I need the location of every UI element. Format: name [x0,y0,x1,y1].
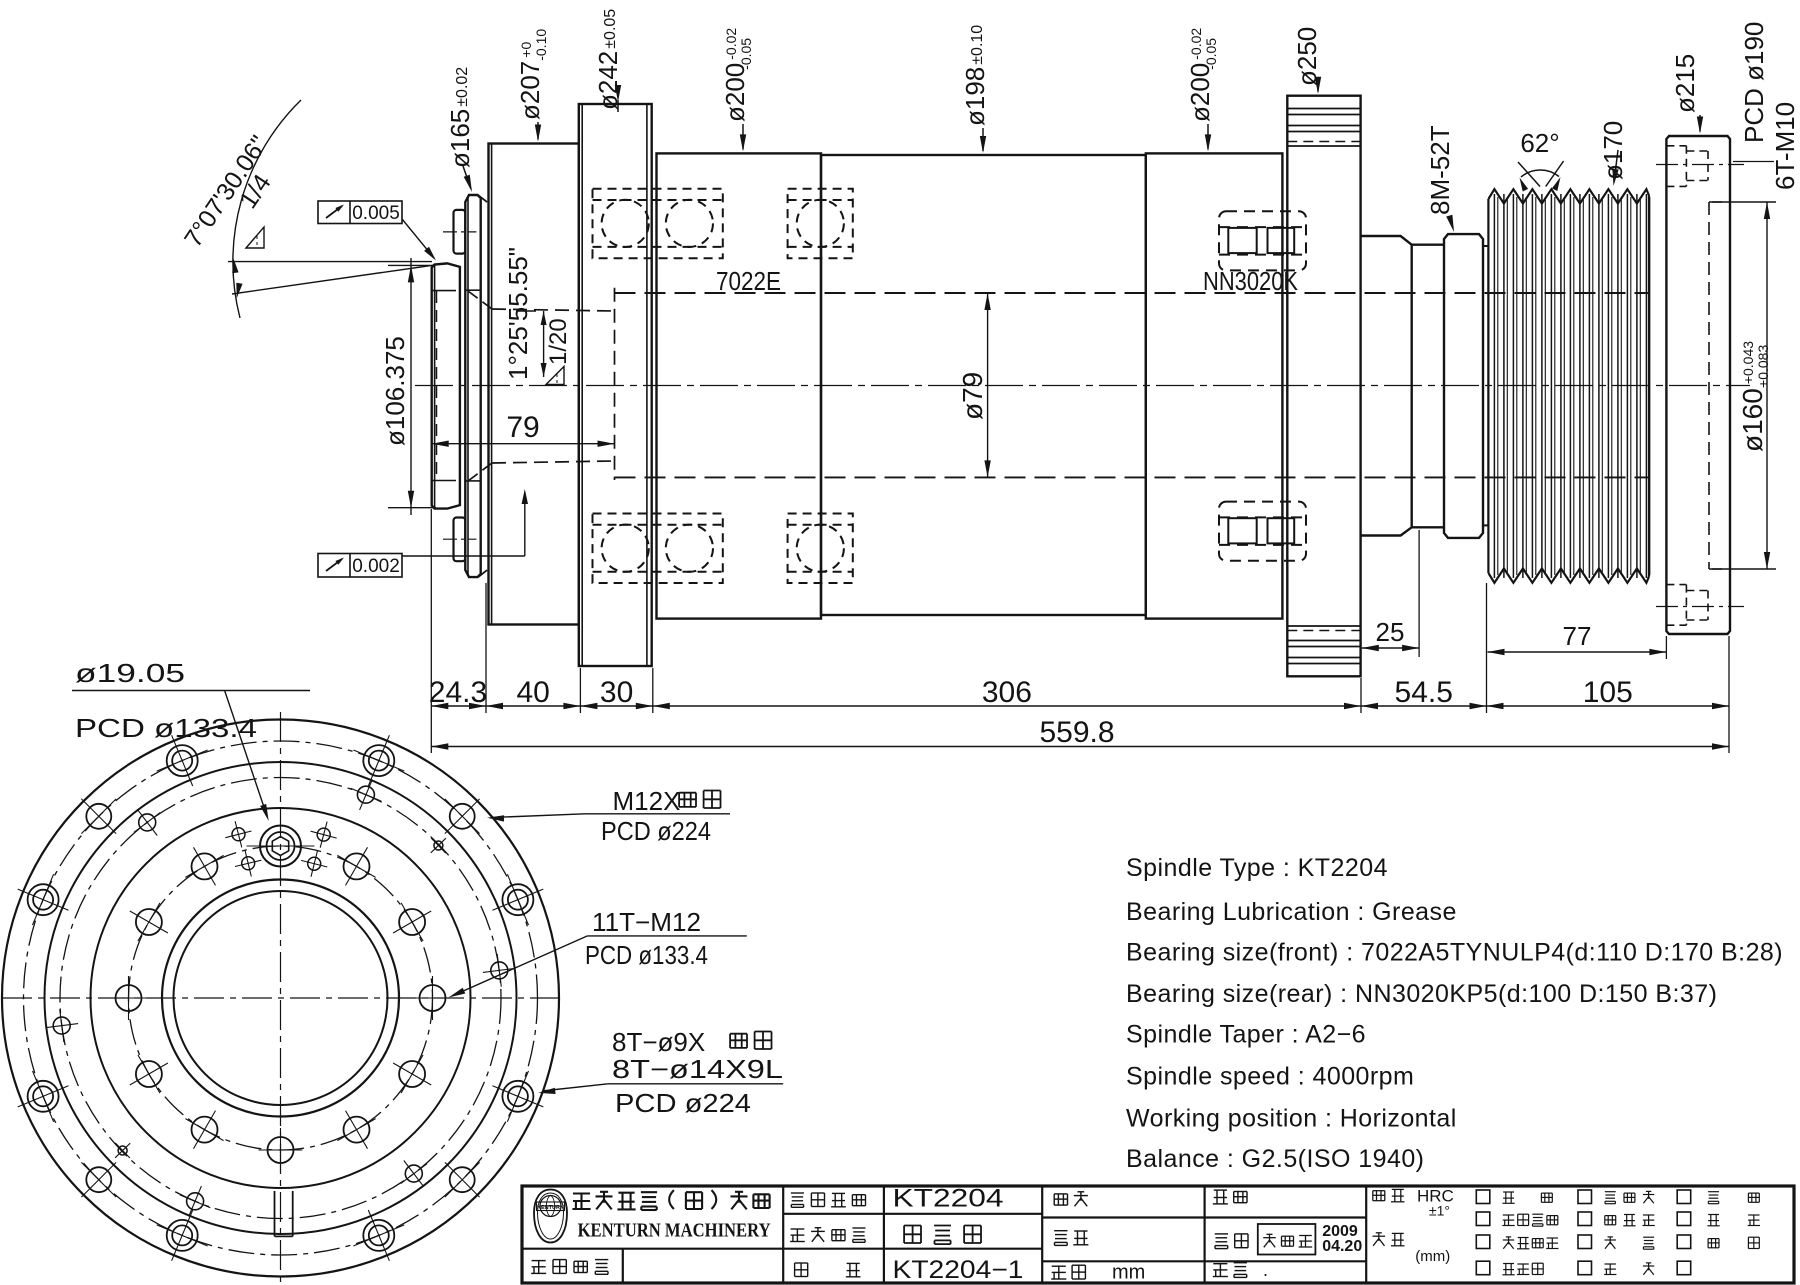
svg-text:KENTURN: KENTURN [537,1205,564,1211]
svg-text:ø160+0.043+0.083: ø160+0.043+0.083 [1737,341,1771,452]
node stepped shaft after rear flange [1361,236,1444,536]
wire dimension extension lines bottom [431,509,1729,753]
label D215 with arrow [1670,54,1703,134]
svg-text:PCD ø190: PCD ø190 [1739,22,1769,143]
svg-text:24.3: 24.3 [429,676,487,709]
svg-text:ø200-0.02-0.05: ø200-0.02-0.05 [720,28,754,122]
svg-text:M12X: M12X [613,786,681,816]
label D242 with arrow [593,9,623,112]
label unit mm cell [1051,1262,1145,1284]
wire internal taper bore hidden lines [468,288,615,481]
svg-text:8T−ø14X9L: 8T−ø14X9L [612,1054,783,1084]
svg-text:40: 40 [517,676,550,709]
svg-text:04.20: 04.20 [1322,1238,1362,1255]
node housing section D207 [489,144,579,625]
svg-text:ø106.375: ø106.375 [380,336,410,446]
node rear flange D250 with thread grooves [1287,96,1360,677]
node title block frame [522,1186,1794,1283]
svg-text:0.005: 0.005 [352,203,400,224]
svg-text:.: . [1263,1260,1268,1280]
label 8T holes PCD224 [538,1027,783,1118]
node small balance holes near big hole [225,821,336,877]
node front view bolt circle PCD190 [60,778,501,1219]
svg-text:ø19.05: ø19.05 [75,658,185,688]
node company logo oval [534,1190,567,1243]
label 7022E [716,266,781,296]
svg-text:Bearing size(front) : 7022A: Bearing size(front) : 7022A5TYNULP4(d:11… [1126,939,1783,967]
dimension 77 belt width [1488,621,1667,655]
svg-text:79: 79 [506,411,539,444]
node front view bore inner circle [174,891,388,1105]
bearing NN3020K bottom [1219,502,1306,561]
node front view circle D165 [91,808,471,1188]
dimension 40 [486,676,580,709]
label part number cell [531,1260,608,1275]
svg-text:1°25'55.55": 1°25'55.55" [503,247,533,380]
node D160 recess hidden lines [1709,202,1730,569]
wire D79 bore hidden lines [615,293,1649,477]
svg-text:PCD ø133.4: PCD ø133.4 [585,940,708,970]
label 11T-M12 PCD133.4 [449,907,747,998]
svg-text:mm: mm [1112,1262,1145,1284]
label part name row [790,1226,981,1245]
bearing 7022E single top [788,189,853,259]
node end cap bolt hole bottom [1656,585,1744,626]
dimension D106.375 [380,258,436,515]
svg-text:Spindle speed : 4000rpm: Spindle speed : 4000rpm [1126,1063,1414,1091]
svg-text:62°: 62° [1520,128,1559,158]
node poly-V pulley ribbed body [1488,189,1649,583]
label D198 with arrow [960,25,990,153]
wire centerline of spindle side view [415,385,1750,387]
bearing 7022E front duplex pair bottom [593,514,723,584]
svg-text:Bearing size(rear) : NN3020: Bearing size(rear) : NN3020KP5(d:100 D:1… [1126,980,1717,1008]
label D200 rear with arrow [1185,28,1219,152]
label drawing number row [795,1256,1024,1284]
bearing 7022E single bottom [788,514,853,584]
label M12X through holes PCD224 [487,786,730,846]
node front view circle D207 [45,762,517,1234]
svg-text:PCD ø133.4: PCD ø133.4 [75,713,257,743]
svg-text:±1°: ±1° [1429,1203,1450,1219]
svg-text:KT2204: KT2204 [893,1184,1004,1212]
svg-text:306: 306 [982,676,1032,709]
svg-text:Balance : G2.5(ISO 1940): Balance : G2.5(ISO 1940) [1126,1145,1424,1173]
svg-text:30: 30 [600,676,633,709]
label product type row [791,1184,1004,1212]
label runout 0.002 frame [318,489,528,577]
node pulley spacer strip [1483,246,1488,525]
label company name CJK [572,1190,769,1210]
svg-text:0.002: 0.002 [352,556,400,577]
svg-text:25: 25 [1376,617,1405,647]
svg-text:6T-M10: 6T-M10 [1770,102,1800,190]
node end cap bolt hole top (6T-M10) [1656,146,1744,187]
node clamp ring 8M-52T [1444,234,1483,538]
svg-text:NN3020K: NN3020K [1203,266,1299,296]
node front view bolt circle PCD133.4 [129,846,433,1150]
dimension 62 degree groove angle [1518,128,1564,192]
label 6T-M10 [1770,102,1800,190]
dimension 105 [1487,676,1730,709]
dimension 559.8 overall length [431,716,1729,750]
label drawn-by cell with name and date [1215,1223,1363,1255]
svg-text:54.5: 54.5 [1395,676,1453,709]
dimension 79 taper depth [432,411,615,447]
label approval cell [1054,1192,1088,1207]
node drive key bottom [443,518,476,562]
node drive key top [443,210,476,254]
label material cell [1213,1260,1268,1280]
dimension bore taper angle 1 25 55.55 and 1/20 flag [503,247,572,385]
node tiny holes on PCD190 [115,838,446,1158]
svg-text:7022E: 7022E [716,266,781,296]
node 11T M12 holes on PCD133.4 [107,847,455,1172]
svg-text:Spindle Taper : A2−6: Spindle Taper : A2−6 [1126,1021,1366,1049]
node housing section D198 middle [821,155,1146,615]
node front view taper opening D106.375 [162,880,399,1117]
node treatment checkboxes grid [1476,1190,1760,1275]
svg-text:(mm): (mm) [1415,1248,1450,1265]
dimension taper angle 7 07 30.06 with arc [179,100,438,318]
label NN3020K [1203,266,1299,296]
dimension D79 bore [957,293,991,477]
svg-text:1/20: 1/20 [545,318,572,365]
svg-text:559.8: 559.8 [1039,716,1114,749]
label D207 with arrow [515,29,549,142]
bearing 7022E front duplex pair top [593,189,723,259]
svg-text:8T−ø9X: 8T−ø9X [612,1027,705,1057]
bearing NN3020K top [1219,211,1306,270]
node 8T D14X9L counterbore holes on PCD224 [18,735,544,1261]
label runout 0.005 frame [318,201,436,261]
label D200 front with arrow [720,28,754,152]
svg-text:Spindle Type : KT2204: Spindle Type : KT2204 [1126,854,1388,882]
node end cap disc D215 [1666,136,1730,634]
svg-text:ø79: ø79 [957,372,988,420]
label review cell [1213,1190,1247,1204]
dimension 25 [1362,617,1419,651]
label D250 with arrow [1292,27,1322,94]
label KENTURN MACHINERY [578,1219,771,1241]
label D19.05 PCD133.4 [72,658,310,821]
label D170 with arrow [1598,121,1628,186]
node spindle nose taper cone [432,263,460,508]
label specification text block [1126,854,1783,1173]
svg-text:77: 77 [1563,621,1592,651]
label hardness depth cell [1373,1186,1454,1265]
dimension 24.3 [429,676,487,709]
node front view flange outer circle D242 [2,720,559,1277]
svg-text:ø207+0-0.10: ø207+0-0.10 [515,29,549,120]
label PCD 190 [1733,22,1774,162]
label D165 with arrow [445,67,475,192]
svg-text:PCD ø224: PCD ø224 [601,816,711,846]
node D19.05 pilot hole with hex socket [247,826,315,867]
node housing section D200 front [657,153,822,618]
node front flange D242 [579,104,652,666]
svg-text:KENTURN MACHINERY: KENTURN MACHINERY [578,1219,771,1241]
node front view bolt circle PCD224 [24,741,538,1255]
svg-text:Bearing Lubrication : Greas: Bearing Lubrication : Grease [1126,898,1457,926]
svg-text:8M-52T: 8M-52T [1425,125,1455,215]
svg-text:ø215: ø215 [1670,54,1700,113]
node front view centerlines [2,712,558,1285]
svg-text:KT2204−1: KT2204−1 [893,1256,1024,1284]
svg-text:ø200-0.02-0.05: ø200-0.02-0.05 [1185,28,1219,122]
node keyway slot at bottom of front view [275,1191,293,1236]
svg-text:105: 105 [1583,676,1633,709]
node 6T M10 holes on PCD190 [45,780,515,1217]
label design cell [1054,1231,1088,1246]
dimension 30 [580,676,652,709]
node M12 through holes on PCD224 [81,799,479,1197]
label 8M-52T with arrow [1425,125,1455,232]
svg-text:11T−M12: 11T−M12 [592,907,701,937]
dimension D160 with tolerance [1712,202,1776,569]
node housing section D200 rear [1146,153,1283,618]
node front plate disc D165 [465,195,487,577]
svg-text:Working position : Horizont: Working position : Horizontal [1126,1105,1457,1133]
dimension 306 [653,676,1361,709]
svg-text:PCD ø224: PCD ø224 [615,1088,751,1118]
dimension 54.5 [1361,676,1487,709]
